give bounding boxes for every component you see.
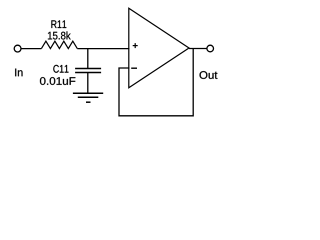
terminal Out: [207, 45, 214, 52]
label C11: [53, 65, 68, 73]
terminal In: [14, 45, 21, 52]
wire capacitor to ground: [87, 73, 89, 94]
label In: [15, 69, 22, 77]
value 0.01uF: [40, 77, 75, 85]
ground: [73, 93, 103, 102]
label R11: [51, 20, 66, 28]
capacitor C11: [75, 69, 101, 73]
value 15.8k: [48, 31, 71, 39]
wire resistor to op-amp: [77, 48, 129, 50]
pin - (inverting input mark): [131, 67, 137, 69]
node junction wire down to capacitor: [87, 49, 89, 69]
resistor R11: [41, 41, 77, 48]
wire op-amp output: [189, 48, 207, 50]
op-amp U1: [129, 8, 189, 88]
label Out: [200, 71, 218, 79]
wire input to resistor: [21, 48, 41, 50]
pin + (non-inverting input mark): [133, 43, 138, 48]
wire feedback loop: [119, 49, 193, 116]
